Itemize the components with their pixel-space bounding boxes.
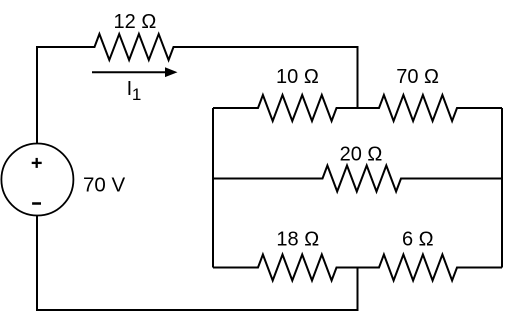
- svg-text:12 Ω: 12 Ω: [114, 11, 157, 33]
- svg-text:20 Ω: 20 Ω: [340, 143, 383, 165]
- svg-text:6 Ω: 6 Ω: [402, 229, 434, 251]
- svg-text:10 Ω: 10 Ω: [276, 66, 319, 88]
- svg-text:70 V: 70 V: [83, 174, 125, 197]
- svg-text:18 Ω: 18 Ω: [276, 229, 319, 251]
- svg-text:70 Ω: 70 Ω: [396, 66, 439, 88]
- svg-text:1: 1: [132, 85, 141, 104]
